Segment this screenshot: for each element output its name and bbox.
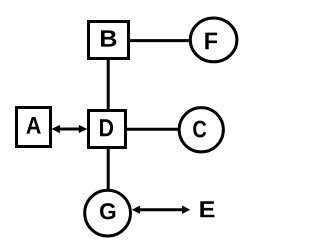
wire B-D [107, 58, 110, 111]
arrow G-E (double-headed) [132, 206, 191, 214]
node E (text label) [200, 201, 214, 217]
wire B-F [128, 39, 191, 42]
node B (box) [89, 22, 129, 59]
node C (circle) [179, 108, 223, 152]
node G (circle) [85, 190, 131, 236]
arrow A-D (double-headed) [52, 125, 88, 133]
node F (circle) [190, 18, 237, 62]
node D (box) [89, 111, 126, 148]
wire D-G [107, 147, 110, 192]
wire D-C [125, 128, 181, 131]
node A (box) [17, 108, 51, 147]
